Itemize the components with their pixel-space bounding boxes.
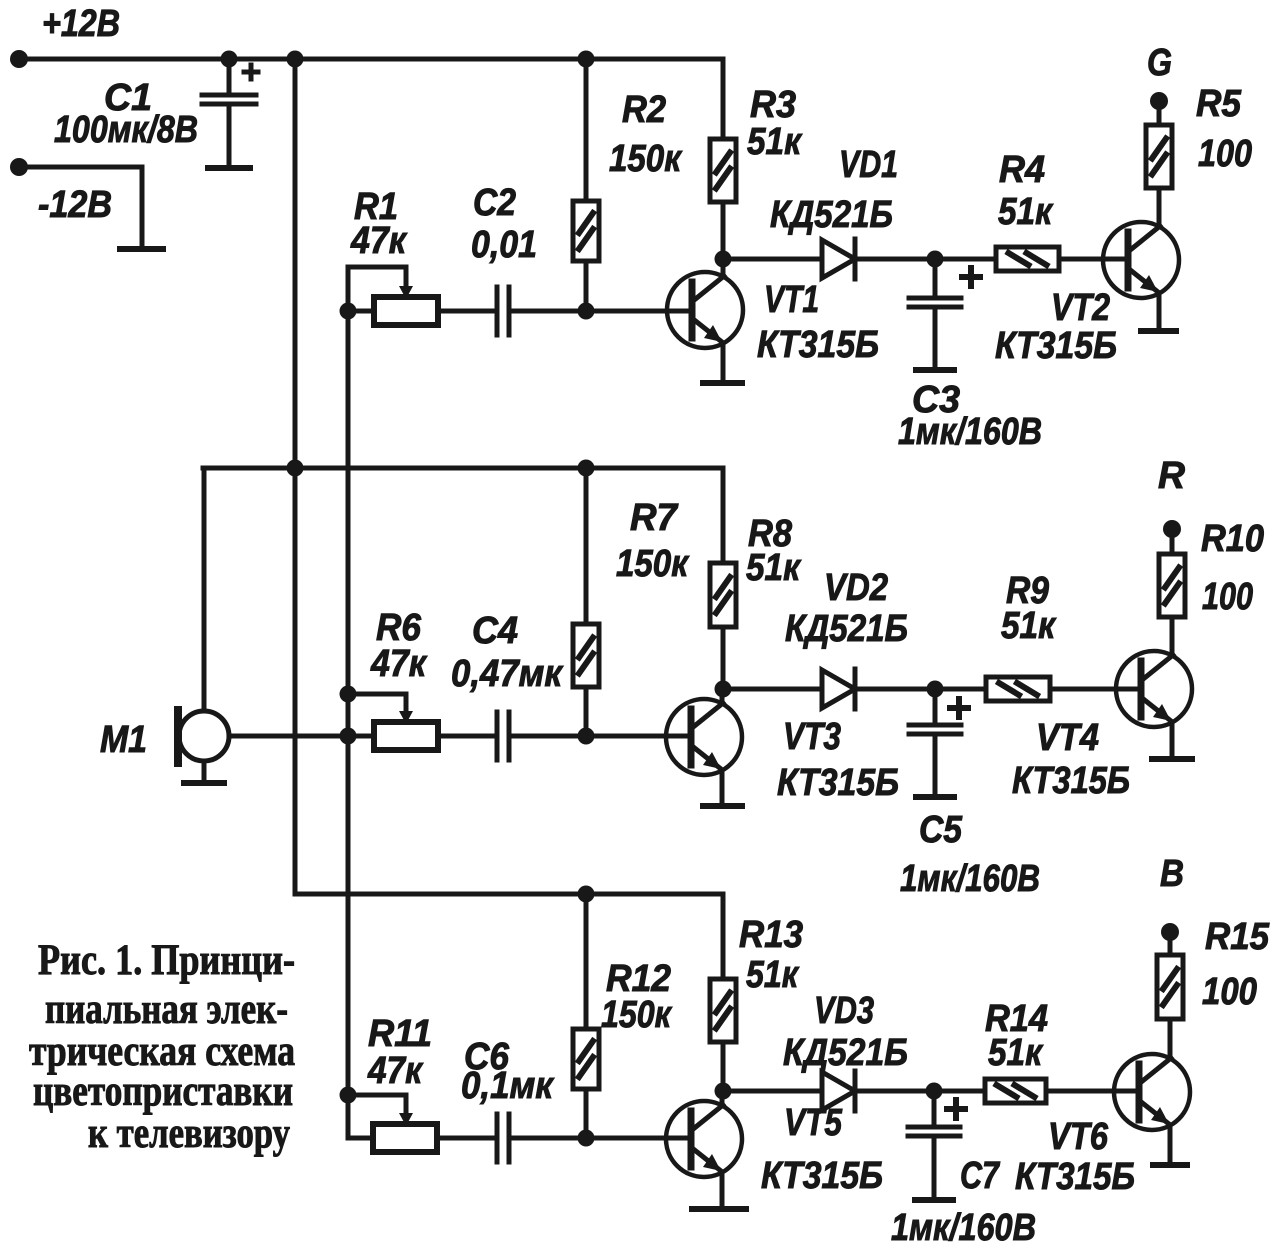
ground VT1 emitter [703,380,742,386]
svg-text:150к: 150к [601,994,672,1036]
capacitor C5 1мк/160В [933,689,938,725]
svg-text:КД521Б: КД521Б [783,1032,908,1074]
svg-text:51к: 51к [747,121,803,163]
microphone M1 [202,468,207,711]
potentiometer R1 47к [374,297,438,325]
C1 polarity + [244,70,258,75]
+12V supply rail [10,50,28,68]
wire +12V rail channel 3 [295,892,723,897]
wire R9 to VT4 base [1050,687,1141,692]
ground VT2 emitter [1141,328,1176,334]
wire VD2 to C5 node [855,687,986,692]
M1 ground bar [184,780,224,786]
C3 polarity + [962,274,980,280]
transistor VT6 КТ315Б [1114,1054,1190,1130]
svg-text:КТ315Б: КТ315Б [777,762,899,804]
svg-text:VT6: VT6 [1048,1116,1109,1158]
svg-text:VT4: VT4 [1036,717,1099,759]
wire R6 wiper link [348,694,406,713]
svg-text:VT5: VT5 [784,1102,843,1144]
node C3 junction [927,251,944,268]
svg-text:VT2: VT2 [1051,287,1110,329]
node base junction R7 bottom [578,728,595,745]
potentiometer R11 47к [373,1124,437,1152]
resistor R8 51к [721,468,726,563]
node M1 to R6 junction [340,728,357,745]
node R6 input junction [340,686,357,703]
vertical supply bus (node +12V distribution) [287,51,304,68]
svg-text:150к: 150к [616,543,690,585]
capacitor C1 [221,51,238,68]
-12V end bar [120,246,163,252]
resistor R7 150к [584,468,589,624]
node collector junction [715,251,732,268]
svg-text:VD3: VD3 [814,990,874,1032]
wire R6 to С4 [438,734,497,739]
resistor R2 150к [584,59,589,201]
svg-text:КТ315Б: КТ315Б [995,325,1117,367]
wire emitter of VT3 to ground [720,770,725,806]
wire collector of VT5 [720,1091,725,1106]
svg-text:51к: 51к [988,1032,1044,1074]
vertical input signal bus from M1 [346,311,351,1138]
svg-text:B: B [1160,853,1184,895]
wire R4 to VT2 base [1059,257,1128,262]
wire С2 to base node [509,309,586,314]
resistor R15 100 [1157,955,1183,1019]
svg-text:КТ315Б: КТ315Б [1012,760,1130,802]
wire collector node to VD2 [723,687,822,692]
svg-text:КД521Б: КД521Б [770,194,893,236]
wire bus to R11 left terminal [348,1095,373,1138]
R11 wiper arrow [399,1113,413,1126]
node rail junction at R2 top [578,51,595,68]
svg-text:1мк/160В: 1мк/160В [891,1207,1036,1248]
svg-text:R3: R3 [750,84,796,126]
wire emitter of VT2 to ground [1157,293,1162,331]
svg-text:КД521Б: КД521Б [785,608,908,650]
svg-text:150к: 150к [609,138,683,180]
svg-text:0,47мк: 0,47мк [451,653,564,695]
capacitor C7 1мк/160В [932,1091,937,1127]
svg-text:R13: R13 [739,914,803,956]
svg-text:R4: R4 [999,149,1045,191]
wire VD3 to C7 node [855,1089,985,1094]
svg-text:R10: R10 [1201,518,1264,560]
ground VT5 emitter [692,1206,746,1212]
svg-text:VT1: VT1 [764,279,819,321]
diode VD2 КД521Б [822,670,855,708]
svg-text:пиальная элек-: пиальная элек- [45,986,288,1033]
diode VD1 КД521Б [822,240,855,278]
C7 polarity + [947,1106,965,1112]
node rail junction at R12 top [578,886,595,903]
svg-text:47к: 47к [367,1050,423,1092]
wire emitter of VT4 to ground [1170,722,1175,759]
ground VT6 emitter [1153,1162,1187,1168]
svg-text:R15: R15 [1205,916,1270,958]
resistor R9 51к [986,677,1050,701]
C5 polarity + [950,705,968,711]
svg-text:C7: C7 [960,1155,1000,1197]
wire R1 to С2 [438,309,497,314]
svg-text:к телевизору: к телевизору [88,1110,290,1157]
svg-text:47к: 47к [350,220,407,262]
svg-text:51к: 51к [746,547,802,589]
wire emitter of VT5 to ground [720,1172,725,1209]
transistor VT2 КТ315Б [1103,222,1179,298]
node rail junction at R7 top [578,460,595,477]
node R11 input junction [340,1087,357,1104]
wire R1 wiper link [348,267,406,311]
-12V input terminal and wire [10,158,28,176]
wire bus to R6 left terminal [348,734,374,739]
svg-text:100: 100 [1202,971,1257,1013]
wire emitter of VT1 to ground [721,343,726,383]
wire base node to VT3 [586,734,691,739]
svg-text:0,1мк: 0,1мк [461,1065,555,1107]
wire collector of VT1 [721,259,726,277]
wire base node to VT1 [586,309,692,314]
resistor R13 51к [721,894,726,979]
ground VT4 emitter [1152,756,1192,762]
wire M1 output [229,734,374,739]
svg-text:G: G [1147,42,1172,84]
node C5 junction [927,681,944,698]
svg-text:+12В: +12В [42,3,120,45]
wire R10 to output R [1170,529,1175,554]
svg-text:R5: R5 [1196,83,1242,125]
node output terminal R [1163,520,1181,538]
svg-text:VD2: VD2 [824,567,888,609]
wire VD1 to C3 node [855,257,996,262]
svg-text:100: 100 [1198,133,1252,175]
transistor VT5 КТ315Б [666,1101,742,1177]
node bus junction channel 2 [287,460,304,477]
wire collector of VT3 [720,689,725,704]
svg-text:М1: М1 [100,719,147,761]
R1 wiper arrow [399,286,413,299]
transistor VT4 КТ315Б [1116,651,1192,727]
wire base node to VT5 [586,1136,691,1141]
wire С6 to base node [509,1136,586,1141]
wire VT6 collector to R15 [1168,1019,1173,1059]
svg-text:С4: С4 [472,610,518,652]
svg-text:1мк/160В: 1мк/160В [898,411,1042,453]
svg-text:51к: 51к [998,191,1054,233]
node R1 input junction [340,303,357,320]
svg-text:51к: 51к [746,954,799,996]
R6 wiper arrow [399,711,413,724]
svg-text:цветоприставки: цветоприставки [33,1068,293,1115]
capacitor С6 0,1мк [495,1114,500,1162]
svg-text:R: R [1158,455,1186,497]
svg-text:1мк/160В: 1мк/160В [900,858,1040,900]
svg-text:КТ315Б: КТ315Б [761,1155,883,1197]
wire bus to R1 left terminal [348,309,374,314]
wire R11 to С6 [437,1136,497,1141]
node output terminal G [1150,92,1168,110]
svg-text:С2: С2 [473,182,516,224]
svg-text:VT3: VT3 [783,716,841,758]
wire R15 to output B [1168,932,1173,955]
wire VT4 collector to R10 [1170,617,1175,656]
node C7 junction [926,1083,943,1100]
resistor R5 100 [1146,125,1172,188]
svg-text:R7: R7 [630,497,679,539]
wire collector node to VD3 [723,1089,822,1094]
resistor R3 51к [721,59,726,139]
node collector junction [715,681,732,698]
potentiometer R6 47к [374,722,438,750]
svg-text:R11: R11 [368,1013,432,1055]
wire +12V rail channel 2 [203,466,723,471]
resistor R14 51к [985,1079,1046,1103]
wire +12V rail channel 1 [18,57,723,62]
wire VT2 collector to R5 [1157,188,1162,227]
wire R11 wiper link [348,1095,406,1115]
ground VT3 emitter [703,803,742,809]
wire emitter of VT6 to ground [1168,1125,1173,1165]
node base junction R2 bottom [578,303,595,320]
wire collector node to VD1 [723,257,822,262]
resistor R12 150к [584,894,589,1029]
svg-text:VD1: VD1 [839,144,898,186]
wire R5 to output G [1157,101,1162,125]
svg-text:КТ315Б: КТ315Б [1015,1156,1135,1198]
svg-text:КТ315Б: КТ315Б [757,324,879,366]
svg-text:47к: 47к [370,643,427,685]
svg-text:51к: 51к [1001,605,1057,647]
node output terminal B [1161,923,1179,941]
wire С4 to base node [509,734,586,739]
transistor VT3 КТ315Б [666,699,742,775]
node collector junction [715,1083,732,1100]
capacitor C3 1мк/160В [933,259,938,298]
svg-text:Рис. 1. Принци-: Рис. 1. Принци- [38,937,295,984]
capacitor С4 0,47мк [495,712,500,760]
svg-text:C5: C5 [919,809,963,851]
resistor R10 100 [1159,554,1185,617]
svg-text:-12В: -12В [38,184,112,226]
node base junction R12 bottom [578,1130,595,1147]
wire R14 to VT6 base [1046,1089,1139,1094]
capacitor С2 0,01 [495,287,500,335]
svg-text:100: 100 [1202,576,1253,618]
svg-text:100мк/8В: 100мк/8В [54,109,198,151]
svg-text:R2: R2 [622,89,666,131]
transistor VT1 КТ315Б [667,272,743,348]
resistor R4 51к [996,247,1059,271]
svg-text:0,01: 0,01 [471,224,537,266]
diode VD3 КД521Б [822,1072,855,1110]
